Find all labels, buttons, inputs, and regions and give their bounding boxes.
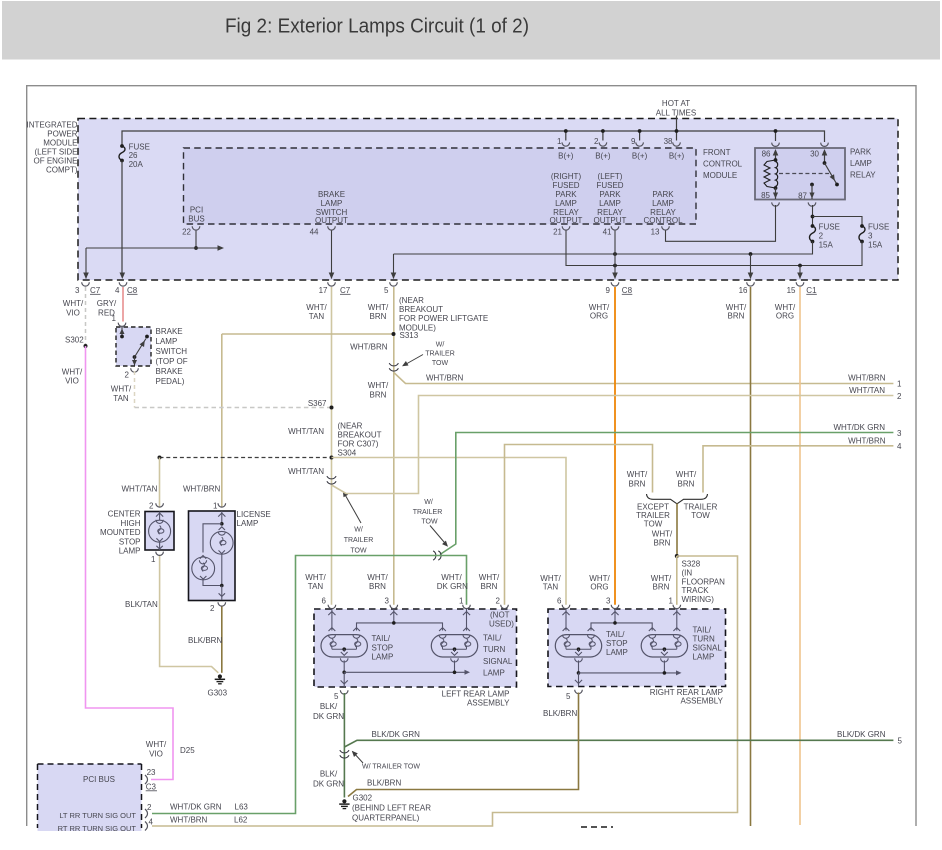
wire WHT/VIO dashed (pin3 to S302) <box>85 287 87 346</box>
svg-text:LAMP: LAMP <box>156 337 178 346</box>
svg-text:CONTROL: CONTROL <box>703 160 743 169</box>
wire WHT/BRN branch to license lamp <box>222 333 394 335</box>
svg-text:LT RR TURN SIG OUT: LT RR TURN SIG OUT <box>59 811 136 820</box>
svg-text:C8: C8 <box>622 286 633 295</box>
svg-text:(RIGHT): (RIGHT) <box>551 172 582 181</box>
svg-text:WHT/: WHT/ <box>305 573 326 582</box>
svg-text:PCI BUS: PCI BUS <box>83 775 115 784</box>
connector break W/TRAILER TOW (WHT/BRN) <box>389 363 398 366</box>
svg-text:TRAILER: TRAILER <box>425 351 455 358</box>
svg-text:BREAKOUT: BREAKOUT <box>338 431 382 440</box>
wire pin41 to pin9 <box>614 231 616 279</box>
svg-text:BLK/: BLK/ <box>320 702 338 711</box>
svg-text:17: 17 <box>319 286 328 295</box>
svg-text:23: 23 <box>147 768 156 777</box>
svg-text:3: 3 <box>75 286 80 295</box>
svg-text:20A: 20A <box>129 160 144 169</box>
svg-text:9: 9 <box>606 286 611 295</box>
svg-text:5: 5 <box>334 692 339 701</box>
fuse F26 <box>119 146 125 161</box>
svg-text:WHT/TAN: WHT/TAN <box>288 427 324 436</box>
svg-text:TAN: TAN <box>308 582 324 591</box>
svg-text:TRACK: TRACK <box>682 586 710 595</box>
svg-text:CONTROL: CONTROL <box>643 216 683 225</box>
leader W/TRAILER TOW 4 <box>353 752 364 764</box>
svg-text:WHT/: WHT/ <box>367 573 388 582</box>
svg-text:13: 13 <box>651 227 660 236</box>
svg-text:C3: C3 <box>146 782 157 791</box>
connector break W/TRAILER TOW (BLK/DK GRN) <box>340 750 349 753</box>
svg-text:6: 6 <box>557 597 562 606</box>
svg-text:BRN: BRN <box>678 480 695 489</box>
bulb CHMSL <box>159 512 161 521</box>
FCM pin 22 <box>192 226 200 230</box>
IPM pin 3 <box>82 282 90 286</box>
svg-text:BUS: BUS <box>188 215 204 224</box>
wire WHT/TAN (pin17 to left lamp pin6) <box>331 287 333 605</box>
svg-text:BLK/TAN: BLK/TAN <box>125 600 158 609</box>
svg-text:26: 26 <box>129 151 138 160</box>
svg-text:WHT/: WHT/ <box>63 299 84 308</box>
svg-text:PARK: PARK <box>555 190 577 199</box>
wire dashed to S367 <box>135 407 332 409</box>
svg-text:B(+): B(+) <box>558 151 574 160</box>
license lamp box <box>189 511 236 601</box>
svg-text:TAN: TAN <box>543 583 559 592</box>
svg-text:WHT/BRN: WHT/BRN <box>183 484 221 493</box>
svg-text:BRN: BRN <box>370 312 387 321</box>
svg-text:WHT/: WHT/ <box>441 573 462 582</box>
svg-text:WHT/TAN: WHT/TAN <box>288 467 324 476</box>
wire fuse26 to pin4 <box>121 161 123 273</box>
svg-text:TAIL/: TAIL/ <box>483 634 502 643</box>
FCM pin 41 <box>611 226 619 230</box>
svg-text:WHT/BRN: WHT/BRN <box>426 373 464 382</box>
svg-text:WHT/TAN: WHT/TAN <box>122 484 158 493</box>
fuse F2 <box>810 226 816 242</box>
svg-text:HIGH: HIGH <box>121 519 141 528</box>
svg-text:ORG: ORG <box>590 312 608 321</box>
svg-text:L62: L62 <box>234 815 248 824</box>
svg-text:TOW: TOW <box>644 520 663 529</box>
svg-text:S328: S328 <box>682 560 701 569</box>
svg-text:TOW: TOW <box>691 511 710 520</box>
svg-text:BRN: BRN <box>629 480 646 489</box>
svg-text:6: 6 <box>322 597 327 606</box>
svg-text:1: 1 <box>669 597 674 606</box>
svg-text:2: 2 <box>147 803 152 812</box>
svg-text:LAMP: LAMP <box>606 648 628 657</box>
svg-text:BRAKE: BRAKE <box>156 327 183 336</box>
svg-text:BRAKE: BRAKE <box>156 367 183 376</box>
svg-text:BLK/BRN: BLK/BRN <box>543 709 577 718</box>
svg-text:1: 1 <box>151 555 156 564</box>
svg-text:TRAILER: TRAILER <box>344 537 374 544</box>
svg-text:INTEGRATED: INTEGRATED <box>27 120 78 129</box>
CHMSL pin 1 <box>156 552 164 556</box>
wire WHT/DK GRN (main to left lamp pin1) <box>152 556 467 814</box>
wire WHT/DK GRN (line 3) <box>440 433 893 555</box>
svg-text:ASSEMBLY: ASSEMBLY <box>467 699 510 708</box>
svg-text:TAN: TAN <box>113 394 129 403</box>
node pin38 feed stub <box>676 116 678 132</box>
svg-text:5: 5 <box>566 692 571 701</box>
svg-text:(BEHIND LEFT REAR: (BEHIND LEFT REAR <box>352 804 431 813</box>
svg-text:WHT/: WHT/ <box>652 529 673 538</box>
svg-text:TAN: TAN <box>309 312 325 321</box>
svg-text:BRN: BRN <box>728 312 745 321</box>
svg-text:TAIL/: TAIL/ <box>693 626 712 635</box>
svg-text:16: 16 <box>739 286 748 295</box>
svg-text:ORG: ORG <box>776 312 794 321</box>
svg-text:LAMP: LAMP <box>599 199 621 208</box>
IPM pin 16 <box>747 282 755 286</box>
FCM pin 13 <box>662 226 670 230</box>
bulb left tail/turn <box>431 635 477 657</box>
svg-text:1: 1 <box>213 501 218 510</box>
bulb right tail/stop <box>555 635 601 657</box>
svg-text:SIGNAL: SIGNAL <box>483 657 513 666</box>
svg-text:D25: D25 <box>180 746 195 755</box>
svg-text:STOP: STOP <box>119 537 141 546</box>
svg-text:EXCEPT: EXCEPT <box>637 502 669 511</box>
svg-text:1: 1 <box>897 379 902 388</box>
svg-text:21: 21 <box>553 227 562 236</box>
svg-text:B(+): B(+) <box>669 151 685 160</box>
svg-text:86: 86 <box>762 149 771 158</box>
svg-text:POWER: POWER <box>47 129 77 138</box>
svg-text:S304: S304 <box>338 449 357 458</box>
svg-text:1: 1 <box>459 597 464 606</box>
front control module box <box>184 148 697 224</box>
svg-text:SWITCH: SWITCH <box>156 347 188 356</box>
svg-text:BLK/BRN: BLK/BRN <box>367 779 401 788</box>
left lamp wiring <box>331 609 333 631</box>
svg-text:WHT/: WHT/ <box>726 303 747 312</box>
leader W/TRAILER TOW 2 <box>344 492 362 523</box>
svg-text:STOP: STOP <box>372 643 394 652</box>
title bar <box>2 1 940 60</box>
svg-text:BRN: BRN <box>369 582 386 591</box>
svg-text:BLK/DK GRN: BLK/DK GRN <box>837 730 886 739</box>
svg-text:3: 3 <box>606 597 611 606</box>
wire WHT/BRN dark (pin16 down) <box>750 287 752 826</box>
wire WHT/TAN trailer-tow branch (line 2) <box>332 396 894 494</box>
svg-text:ASSEMBLY: ASSEMBLY <box>680 696 723 705</box>
wire WHT/BRN trailer-tow branch (line 1) <box>394 373 894 384</box>
svg-text:LAMP: LAMP <box>850 159 872 168</box>
svg-text:PCI: PCI <box>190 206 203 215</box>
svg-text:2: 2 <box>897 392 902 401</box>
svg-text:2: 2 <box>496 597 501 606</box>
svg-text:15: 15 <box>787 286 796 295</box>
svg-text:VIO: VIO <box>149 749 163 758</box>
svg-text:FUSE: FUSE <box>868 223 889 232</box>
svg-text:MODULE: MODULE <box>43 138 77 147</box>
svg-text:G303: G303 <box>208 689 228 698</box>
wire pin13 to relay85 <box>666 205 776 241</box>
wire WHT/TAN (S304 to right lamp pin6) <box>332 458 567 605</box>
svg-text:1: 1 <box>557 137 562 146</box>
svg-text:TAIL/: TAIL/ <box>372 634 391 643</box>
svg-text:BRN: BRN <box>654 539 671 548</box>
FCM pin 9 B(+) <box>639 131 641 141</box>
svg-text:BRN: BRN <box>653 583 670 592</box>
wire pci pin22 tee <box>195 231 197 249</box>
brake switch internals <box>121 327 123 337</box>
ground G303 <box>218 674 222 678</box>
svg-text:S367: S367 <box>308 399 327 408</box>
svg-text:C1: C1 <box>806 286 817 295</box>
license pin 2 <box>218 602 226 606</box>
svg-text:W/: W/ <box>354 527 363 534</box>
wire WHT/BRN (S328 to right lamp pin1) <box>676 556 678 605</box>
diagram border <box>26 85 917 87</box>
svg-text:PEDAL): PEDAL) <box>156 377 185 386</box>
wire WHT/ORG (pin9 to right lamp pin3) <box>614 287 616 605</box>
svg-text:TRAILER: TRAILER <box>413 509 443 516</box>
wire WHT/ORG light (pin15 down) <box>799 287 801 825</box>
svg-text:(NOT: (NOT <box>490 610 510 619</box>
svg-text:MODULE: MODULE <box>703 171 737 180</box>
center high mounted stop lamp box <box>145 512 174 551</box>
svg-text:38: 38 <box>664 137 673 146</box>
svg-text:BREAKOUT: BREAKOUT <box>399 305 443 314</box>
relay switch arm <box>825 163 838 185</box>
svg-text:2: 2 <box>149 501 154 510</box>
svg-text:15A: 15A <box>819 241 834 250</box>
svg-text:2: 2 <box>210 604 215 613</box>
wire BLK/DK GRN trailer branch (line 5) <box>344 740 893 747</box>
svg-text:DK GRN: DK GRN <box>313 712 344 721</box>
svg-text:WHT/: WHT/ <box>676 470 697 479</box>
svg-text:2: 2 <box>594 137 599 146</box>
svg-text:3: 3 <box>897 429 902 438</box>
wire WHT/TAN (S304 to CHMSL) <box>159 458 161 507</box>
IPM pin 5 <box>390 282 398 286</box>
svg-text:USED): USED) <box>489 619 514 628</box>
svg-text:BLK/DK GRN: BLK/DK GRN <box>372 730 421 739</box>
svg-text:S302: S302 <box>65 335 84 344</box>
right lamp pin 5 <box>575 690 583 694</box>
bulb right tail/turn <box>641 635 687 657</box>
svg-text:44: 44 <box>310 227 319 236</box>
svg-text:CENTER: CENTER <box>108 510 141 519</box>
svg-text:C8: C8 <box>127 286 138 295</box>
wire BLK/DK GRN (left lamp to G302) <box>343 693 345 798</box>
svg-text:(NEAR: (NEAR <box>399 296 424 305</box>
IPM pin 9 <box>611 282 619 286</box>
svg-text:DK GRN: DK GRN <box>313 779 344 788</box>
right rear lamp assembly box <box>548 609 726 687</box>
svg-text:B(+): B(+) <box>632 151 648 160</box>
svg-text:TURN: TURN <box>483 645 505 654</box>
wire WHT/BRN (S328 to L62) <box>152 556 738 826</box>
svg-text:5: 5 <box>898 736 903 745</box>
svg-text:OF ENGINE: OF ENGINE <box>33 157 77 166</box>
svg-text:WHT/: WHT/ <box>540 574 561 583</box>
svg-text:FUSED: FUSED <box>596 181 623 190</box>
svg-text:WHT/: WHT/ <box>627 470 648 479</box>
svg-text:(LEFT): (LEFT) <box>598 172 623 181</box>
svg-text:W/: W/ <box>424 499 433 506</box>
wire B+ bus <box>122 131 825 146</box>
svg-text:W/ TRAILER TOW: W/ TRAILER TOW <box>362 764 420 771</box>
wire relay87 to fuse2 <box>812 205 814 226</box>
left rear lamp assembly box <box>314 609 517 687</box>
svg-text:DK GRN: DK GRN <box>437 582 468 591</box>
svg-text:WHT/: WHT/ <box>589 303 610 312</box>
svg-text:TRAILER: TRAILER <box>684 502 718 511</box>
FCM pin 1 B(+) <box>565 131 567 141</box>
svg-text:OUTPUT: OUTPUT <box>550 216 583 225</box>
IPM pin 4 <box>119 282 127 286</box>
wire GRY/RED (pin4 to brake switch) <box>122 287 124 322</box>
svg-text:STOP: STOP <box>606 639 628 648</box>
svg-text:PARK: PARK <box>599 190 621 199</box>
svg-text:COMPT): COMPT) <box>46 166 78 175</box>
svg-text:WHT/TAN: WHT/TAN <box>849 386 885 395</box>
svg-text:(IN: (IN <box>682 569 693 578</box>
svg-text:RELAY: RELAY <box>850 171 876 180</box>
svg-text:87: 87 <box>798 192 807 201</box>
wire pin15 drop <box>799 266 801 279</box>
svg-text:BLK/: BLK/ <box>320 770 338 779</box>
svg-text:TURN: TURN <box>693 635 715 644</box>
svg-text:LAMP: LAMP <box>652 199 674 208</box>
svg-text:VIO: VIO <box>66 308 80 317</box>
wire WHT/BRN (line 4 to brace) <box>703 446 893 493</box>
FCM pin 44 <box>328 226 336 230</box>
integrated power module box <box>78 119 898 281</box>
svg-text:LICENSE: LICENSE <box>237 510 271 519</box>
svg-text:WHT/: WHT/ <box>62 367 83 376</box>
svg-text:WHT/: WHT/ <box>146 740 167 749</box>
relay terminal 87 <box>810 183 814 187</box>
svg-text:TOW: TOW <box>350 547 367 554</box>
svg-text:FUSE: FUSE <box>129 142 150 151</box>
svg-text:G302: G302 <box>353 793 373 802</box>
svg-text:GRY/: GRY/ <box>97 299 117 308</box>
svg-text:WIRING): WIRING) <box>682 595 715 604</box>
svg-text:TOW: TOW <box>421 519 438 526</box>
left lamp ground rail <box>343 660 345 672</box>
svg-text:(TOP OF: (TOP OF <box>156 357 188 366</box>
relay terminal 85 <box>775 188 777 199</box>
svg-text:3: 3 <box>385 597 390 606</box>
wire WHT/BRN brace tail <box>676 504 678 557</box>
node S313 <box>392 332 396 336</box>
svg-text:BLK/BRN: BLK/BRN <box>188 636 222 645</box>
svg-text:WHT/: WHT/ <box>651 574 672 583</box>
svg-text:LAMP: LAMP <box>483 668 505 677</box>
svg-text:S313: S313 <box>400 331 419 340</box>
svg-text:WHT/DK GRN: WHT/DK GRN <box>170 803 222 812</box>
svg-text:Fig 2: Exterior Lamps Circuit: Fig 2: Exterior Lamps Circuit (1 of 2) <box>225 15 529 37</box>
relay terminal 30 <box>821 143 829 147</box>
svg-text:LAMP: LAMP <box>693 653 715 662</box>
svg-text:MOUNTED: MOUNTED <box>100 528 141 537</box>
svg-text:LAMP: LAMP <box>555 199 577 208</box>
svg-text:4: 4 <box>897 442 902 451</box>
wire pin44 to pin17 <box>331 231 333 279</box>
svg-text:3: 3 <box>868 232 873 241</box>
svg-text:B(+): B(+) <box>595 151 611 160</box>
ground G302 <box>342 799 346 803</box>
wire WHT/BRN (line 4a to left lamp pin2) <box>505 445 653 605</box>
svg-text:TAIL/: TAIL/ <box>606 630 625 639</box>
relay coil-switch dashed link <box>779 173 829 175</box>
fuse F3 <box>859 226 865 242</box>
svg-text:22: 22 <box>182 227 191 236</box>
svg-text:BRN: BRN <box>370 391 387 400</box>
svg-text:C7: C7 <box>340 286 351 295</box>
svg-text:QUARTERPANEL): QUARTERPANEL) <box>352 814 420 823</box>
svg-text:2: 2 <box>125 370 130 379</box>
relay coil <box>774 158 778 162</box>
bulb left tail/stop <box>321 635 367 657</box>
svg-text:WHT/BRN: WHT/BRN <box>350 342 388 351</box>
connector break W/TRAILER TOW (WHT/TAN) <box>327 476 336 479</box>
wire pin16 drop <box>750 254 752 279</box>
brake switch pin 2 <box>131 368 139 372</box>
svg-text:SIGNAL: SIGNAL <box>693 644 723 653</box>
right lamp wiring <box>565 609 567 631</box>
svg-text:4: 4 <box>115 286 120 295</box>
svg-text:1: 1 <box>112 314 117 323</box>
svg-text:WHT/DK GRN: WHT/DK GRN <box>833 423 885 432</box>
svg-text:4: 4 <box>149 818 154 827</box>
wire BLK/TAN (CHMSL to G303) <box>160 556 219 673</box>
svg-text:FOR POWER LIFTGATE: FOR POWER LIFTGATE <box>399 314 488 323</box>
svg-text:41: 41 <box>603 227 612 236</box>
brake lamp switch box <box>116 327 151 366</box>
svg-text:LAMP: LAMP <box>119 547 141 556</box>
svg-text:15A: 15A <box>868 241 883 250</box>
wire WHT/TAN dashed (brake pin2) <box>134 371 136 408</box>
svg-text:WHT/: WHT/ <box>589 574 610 583</box>
svg-text:WHT/BRN: WHT/BRN <box>848 374 886 383</box>
park lamp relay box <box>755 148 845 200</box>
wire WHT/VIO (S302 to PCI module) <box>86 346 174 780</box>
svg-text:WHT/BRN: WHT/BRN <box>848 436 886 445</box>
svg-text:HOT AT: HOT AT <box>662 99 690 108</box>
wire WHT/BRN (pin5 to left lamp pin3) <box>393 287 395 605</box>
wire line2 fuse3 to pin21 <box>566 231 862 266</box>
svg-text:5: 5 <box>384 286 389 295</box>
svg-text:(LEFT SIDE: (LEFT SIDE <box>35 148 78 157</box>
svg-text:BRAKE: BRAKE <box>318 190 345 199</box>
svg-text:LAMP: LAMP <box>237 519 259 528</box>
svg-text:FRONT: FRONT <box>703 148 731 157</box>
pci bus module box (bottom left) <box>38 764 142 831</box>
svg-text:TOW: TOW <box>432 360 449 367</box>
svg-text:FOR C307): FOR C307) <box>338 440 379 449</box>
svg-text:85: 85 <box>761 191 770 200</box>
svg-text:LEFT REAR LAMP: LEFT REAR LAMP <box>442 689 510 698</box>
wire line1 fuse2 to pin5 <box>394 242 813 255</box>
svg-text:RT RR TURN SIG OUT: RT RR TURN SIG OUT <box>58 824 137 833</box>
svg-text:ORG: ORG <box>590 583 608 592</box>
node S328 <box>675 554 679 558</box>
svg-text:2: 2 <box>819 232 824 241</box>
license lamp internals <box>221 511 223 524</box>
svg-text:OUTPUT: OUTPUT <box>594 216 627 225</box>
wire to fuse3 top <box>813 217 863 227</box>
svg-text:OUTPUT: OUTPUT <box>315 216 348 225</box>
connector break W/TRAILER TOW (WHT/DK GRN) <box>433 551 436 560</box>
svg-text:FUSE: FUSE <box>819 223 840 232</box>
